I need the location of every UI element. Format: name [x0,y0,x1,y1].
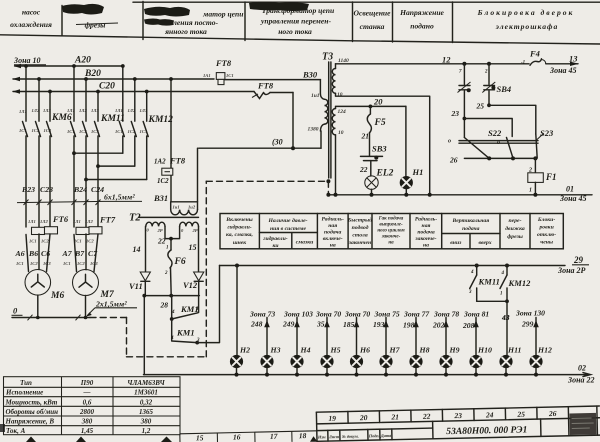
svg-text:124: 124 [338,109,347,115]
svg-text:F6: F6 [174,257,186,267]
svg-text:КМ11: КМ11 [478,277,500,287]
svg-text:0,32: 0,32 [140,398,153,406]
svg-text:4: 4 [501,271,505,276]
svg-text:Подп.: Подп. [368,433,380,438]
svg-text:ного тока: ного тока [278,27,312,36]
svg-text:1Л2: 1Л2 [40,219,48,224]
svg-text:В23: В23 [21,185,35,194]
svg-text:КМ6: КМ6 [51,113,72,123]
svg-text:35: 35 [316,320,325,329]
svg-text:28: 28 [160,301,169,310]
svg-text:на: на [330,243,336,249]
svg-text:4: 4 [171,310,175,315]
svg-text:EL2: EL2 [376,169,394,179]
svg-text:4: 4 [170,336,174,341]
svg-text:1С3: 1С3 [91,129,99,134]
svg-text:23: 23 [451,109,460,118]
svg-text:А7: А7 [62,249,73,258]
svg-text:15: 15 [189,243,197,252]
svg-text:18: 18 [299,431,307,440]
svg-text:ЧЛАМ63ВЧ: ЧЛАМ63ВЧ [127,379,165,387]
svg-text:F5: F5 [374,118,386,128]
svg-text:закончe-: закончe- [414,236,436,242]
svg-text:1С1: 1С1 [226,73,234,78]
svg-text:Зона 77: Зона 77 [403,310,430,319]
svg-text:подвод: подвод [352,224,369,231]
svg-text:Н8: Н8 [419,346,430,355]
svg-text:1С1: 1С1 [67,129,75,134]
svg-text:Зона 70: Зона 70 [344,310,370,319]
svg-text:1Л1: 1Л1 [73,219,81,224]
svg-text:янного тока: янного тока [164,27,207,36]
svg-text:1380: 1380 [308,127,319,133]
svg-text:1Л3: 1Л3 [43,108,51,113]
svg-text:0: 0 [147,228,150,233]
svg-text:185: 185 [343,320,355,329]
svg-text:43: 43 [501,313,510,322]
svg-text:1С2: 1С2 [30,261,38,266]
svg-text:электрошкафа: электрошкафа [495,22,559,31]
svg-text:2: 2 [164,271,168,276]
svg-text:1Л2: 1Л2 [79,108,87,113]
svg-text:10: 10 [338,130,344,136]
svg-text:380: 380 [81,418,93,426]
svg-text:3: 3 [468,290,472,295]
svg-text:А20: А20 [74,56,91,66]
svg-text:Быстрый: Быстрый [347,217,372,224]
svg-text:21: 21 [361,132,370,141]
svg-text:2Р: 2Р [192,228,198,233]
svg-text:1С3: 1С3 [140,129,148,134]
svg-text:S23: S23 [540,128,554,138]
svg-text:3: 3 [195,307,199,312]
svg-text:включе-: включе- [323,236,343,242]
svg-text:299: 299 [521,320,534,329]
svg-text:Зона 130: Зона 130 [515,309,545,318]
svg-text:1и1: 1и1 [173,205,180,210]
svg-text:2800: 2800 [79,408,95,416]
svg-text:01: 01 [566,185,574,194]
svg-text:закончен: закончен [348,240,371,246]
svg-text:Гак подача: Гак подача [378,217,404,222]
svg-text:Блокировка дверок: Блокировка дверок [477,8,575,17]
svg-text:Н5: Н5 [330,346,341,355]
svg-text:1С1: 1С1 [63,261,71,266]
svg-text:движка: движка [505,225,525,232]
svg-text:В30: В30 [302,70,318,80]
svg-text:20: 20 [359,413,368,422]
svg-text:16: 16 [233,432,241,441]
svg-text:2: 2 [484,70,488,75]
svg-text:смазки: смазки [296,240,314,246]
svg-text:19: 19 [328,414,336,423]
svg-text:Вертикальная: Вертикальная [451,218,489,224]
svg-text:SВ4: SВ4 [497,84,512,94]
svg-text:13: 13 [569,54,578,64]
svg-text:1С2: 1С2 [79,129,87,134]
svg-text:Освещение: Освещение [353,9,391,18]
svg-text:подано: подано [410,22,434,31]
svg-text:10: 10 [337,92,343,98]
svg-text:6х1,5мм²: 6х1,5мм² [104,193,135,202]
svg-text:Н7: Н7 [389,346,401,355]
svg-text:ная: ная [422,223,431,229]
svg-text:FТ6: FТ6 [52,214,69,224]
svg-text:подача: подача [324,229,342,236]
svg-text:1С2: 1С2 [32,128,40,133]
svg-text:А6: А6 [15,249,25,258]
svg-text:26: 26 [548,409,557,418]
svg-text:21: 21 [390,412,399,421]
svg-text:ния в системе: ния в системе [270,226,306,232]
svg-text:1С1: 1С1 [115,129,123,134]
svg-text:23: 23 [453,411,462,420]
svg-text:1С1: 1С1 [19,128,27,133]
svg-text:№ докум.: № докум. [341,434,359,439]
svg-text:Н2: Н2 [239,346,250,355]
svg-text:Зона 10: Зона 10 [13,56,41,65]
svg-text:1С1: 1С1 [29,239,37,244]
svg-text:С23: С23 [40,185,53,194]
svg-text:ки: ки [272,243,278,249]
svg-text:248: 248 [250,320,263,329]
svg-text:25: 25 [476,102,485,111]
svg-text:гидравли-: гидравли- [263,235,287,242]
svg-text:насос: насос [22,8,41,17]
svg-text:шнек: шнек [233,240,246,246]
svg-text:FТ8: FТ8 [257,81,274,91]
svg-text:0: 0 [181,228,184,233]
svg-text:1,45: 1,45 [81,427,94,435]
svg-text:7: 7 [459,70,462,75]
svg-text:С20: С20 [99,82,115,92]
svg-text:198: 198 [403,321,415,330]
svg-text:1Л1: 1Л1 [28,219,36,224]
svg-text:КМ1: КМ1 [176,328,195,338]
svg-text:Н11: Н11 [507,346,522,355]
svg-text:1: 1 [529,188,532,194]
svg-text:1365: 1365 [139,408,154,416]
svg-text:249: 249 [282,320,295,329]
svg-text:F4: F4 [529,49,540,59]
svg-text:53А80Н00. 000 РЭ1: 53А80Н00. 000 РЭ1 [446,424,527,437]
svg-text:Н3: Н3 [270,346,281,355]
svg-text:Зона 73: Зона 73 [249,310,275,319]
svg-text:1: 1 [500,292,503,297]
svg-text:Зона 70: Зона 70 [315,310,341,319]
svg-text:Н1: Н1 [412,167,424,177]
svg-text:1С2: 1С2 [86,239,94,244]
svg-text:Зона 45: Зона 45 [549,66,577,75]
svg-text:SВ3: SВ3 [372,144,387,154]
svg-text:управления перемен-: управления перемен- [260,17,331,26]
svg-text:В24: В24 [73,185,87,194]
svg-text:Н9: Н9 [449,346,460,355]
svg-text:20: 20 [373,97,383,107]
svg-text:Т3: Т3 [322,52,333,63]
svg-text:380: 380 [140,418,152,426]
svg-text:Наличие давле-: Наличие давле- [268,217,308,224]
svg-text:29: 29 [573,255,584,265]
svg-text:Радиаль-: Радиаль- [322,216,344,223]
svg-text:22: 22 [359,165,368,174]
svg-text:ного циклом: ного циклом [377,229,405,234]
svg-text:02: 02 [578,364,586,373]
svg-text:ная: ная [328,223,337,229]
svg-text:Ток, А: Ток, А [6,427,26,435]
svg-text:1М3601: 1М3601 [134,388,158,396]
svg-text:вверх: вверх [478,240,491,246]
svg-text:F1: F1 [545,172,557,182]
svg-text:стола: стола [352,233,367,239]
svg-text:(30: (30 [272,138,283,147]
svg-text:-1: -1 [521,61,525,66]
svg-text:4: 4 [470,270,474,275]
svg-text:Напряжение, В: Напряжение, В [5,418,55,426]
svg-text:ления посто-: ления посто- [172,18,219,27]
svg-text:26: 26 [449,156,458,165]
svg-text:законче-: законче- [381,235,401,240]
svg-text:подача: подача [417,229,435,236]
svg-text:подача: подача [462,225,480,232]
svg-text:2Р: 2Р [157,228,163,233]
svg-text:S22: S22 [488,128,502,138]
svg-text:1: 1 [166,246,169,251]
svg-text:14: 14 [133,245,141,254]
svg-text:1Л2: 1Л2 [85,219,93,224]
svg-text:на: на [388,241,394,246]
svg-text:12: 12 [442,55,451,65]
svg-text:Дата: Дата [380,433,391,438]
svg-text:о: о [448,139,451,145]
svg-text:Н10: Н10 [477,346,492,355]
svg-text:В6: В6 [28,249,38,258]
svg-text:Зона 103: Зона 103 [283,310,313,319]
svg-text:КМ12: КМ12 [508,278,532,288]
svg-text:о: о [497,140,500,146]
svg-text:FТ8: FТ8 [215,58,232,68]
svg-text:1,2: 1,2 [142,427,151,435]
svg-text:Радиаль-: Радиаль- [415,216,437,223]
svg-text:2х1,5мм²: 2х1,5мм² [95,299,127,308]
svg-text:Н12: Н12 [537,346,552,355]
svg-text:Зона 22: Зона 22 [567,376,595,385]
svg-text:1А2: 1А2 [154,158,166,166]
svg-text:1С2: 1С2 [128,129,136,134]
svg-text:1С2: 1С2 [41,239,49,244]
svg-text:чены: чены [540,240,553,246]
svg-text:24: 24 [485,410,494,419]
svg-text:гидравли-: гидравли- [227,224,251,231]
svg-text:Изм: Изм [317,434,326,439]
svg-text:17: 17 [270,432,278,441]
svg-text:фрезы: фрезы [85,21,106,30]
svg-text:15: 15 [196,433,204,442]
svg-text:0: 0 [13,306,18,316]
svg-text:Зона 75: Зона 75 [374,310,400,319]
svg-text:1Л1: 1Л1 [67,108,75,113]
svg-text:Лист: Лист [328,434,340,439]
svg-text:1Л1: 1Л1 [115,108,123,113]
svg-text:202: 202 [432,321,445,330]
svg-text:КМ11: КМ11 [100,114,125,124]
svg-text:охлаждения: охлаждения [10,20,52,29]
svg-text:выпрямле-: выпрямле- [379,223,403,228]
svg-text:на: на [423,243,429,249]
svg-text:25: 25 [516,410,525,419]
svg-text:Напряжение: Напряжение [399,8,444,17]
svg-text:станка: станка [360,22,385,31]
svg-text:—: — [83,388,91,396]
svg-text:208: 208 [462,321,475,330]
svg-text:22: 22 [422,412,431,421]
svg-text:В31: В31 [153,193,168,203]
svg-text:1и1: 1и1 [311,93,320,99]
svg-text:Н4: Н4 [300,346,311,355]
svg-text:1Л2: 1Л2 [128,108,136,113]
svg-text:1С2: 1С2 [77,261,85,266]
svg-text:М6: М6 [50,291,64,301]
svg-text:V11: V11 [129,281,143,291]
svg-text:V12: V12 [183,280,198,290]
svg-text:1Л2: 1Л2 [32,108,40,113]
svg-text:Зона 2Р: Зона 2Р [557,266,586,275]
svg-text:FТ8: FТ8 [169,156,186,166]
svg-text:пере-: пере- [509,218,522,224]
svg-text:FТ7: FТ7 [99,215,116,225]
svg-text:1Л1: 1Л1 [19,109,27,114]
svg-text:КМ12: КМ12 [148,115,174,125]
svg-text:Тип: Тип [20,379,32,387]
svg-text:вниз: вниз [450,240,462,246]
svg-text:Н6: Н6 [359,346,370,355]
svg-text:отклю-: отклю- [537,232,556,238]
svg-text:ка, смазка,: ка, смазка, [226,232,253,238]
svg-text:Мощность, кВт: Мощность, кВт [5,398,58,406]
svg-text:Блоки-: Блоки- [537,217,555,223]
svg-text:1Л3: 1Л3 [140,108,148,113]
svg-text:1А1: 1А1 [203,73,211,78]
svg-text:П90: П90 [80,379,94,387]
svg-text:1С1: 1С1 [16,261,24,266]
svg-text:фрезы: фрезы [507,233,523,240]
svg-text:Исполнение: Исполнение [5,389,43,397]
svg-text:1С3: 1С3 [44,128,52,133]
svg-text:193: 193 [373,320,385,329]
svg-text:Обороты об/мин: Обороты об/мин [6,408,59,416]
svg-text:1и2: 1и2 [188,205,196,210]
svg-text:1Л3: 1Л3 [91,108,99,113]
svg-text:0,6: 0,6 [83,398,92,406]
svg-text:ровки: ровки [538,225,553,231]
svg-text:С24: С24 [91,185,104,194]
svg-text:22: 22 [157,237,166,246]
svg-text:Зона 45: Зона 45 [559,194,587,203]
svg-text:Включены: Включены [225,217,252,223]
svg-text:1С2: 1С2 [157,177,169,185]
